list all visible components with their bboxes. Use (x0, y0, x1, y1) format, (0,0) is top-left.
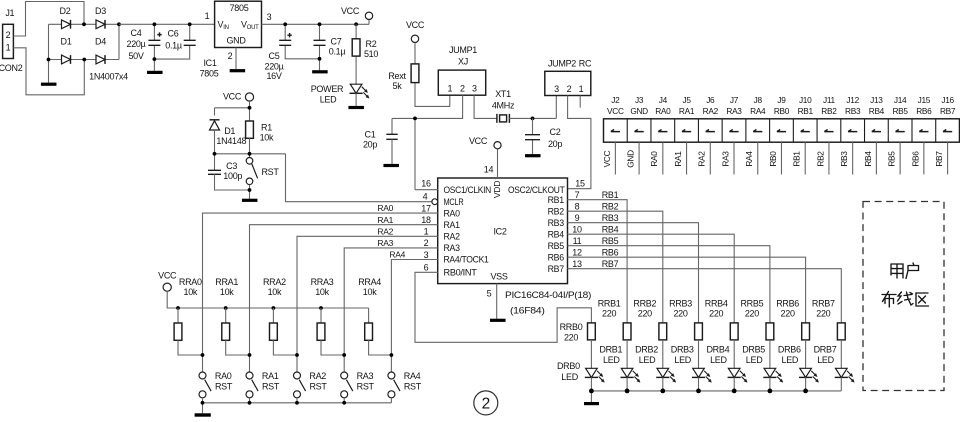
svg-text:J11: J11 (823, 95, 836, 105)
svg-text:RB4: RB4 (602, 224, 619, 234)
svg-text:RRB0: RRB0 (560, 322, 583, 332)
wire bridge top row (49, 23, 120, 25)
svg-text:15: 15 (575, 178, 585, 188)
svg-text:RB4: RB4 (548, 229, 565, 239)
wire J13 stub (875, 142, 877, 174)
svg-text:LED: LED (674, 355, 691, 365)
crystal XT1 4MHz (497, 114, 510, 123)
svg-text:0.1µ: 0.1µ (329, 47, 346, 57)
wire J8 stub (757, 142, 759, 174)
wire input rail (119, 23, 215, 25)
svg-text:220µ: 220µ (126, 39, 145, 49)
svg-text:RST: RST (404, 381, 422, 391)
svg-text:10k: 10k (363, 287, 377, 297)
svg-text:RRB4: RRB4 (705, 298, 728, 308)
svg-text:C3: C3 (226, 161, 237, 171)
wire J5 stub (686, 142, 688, 174)
svg-text:RST: RST (262, 381, 280, 391)
svg-text:10k: 10k (220, 287, 234, 297)
wire J7 stub (733, 142, 735, 174)
svg-text:RA4: RA4 (404, 371, 421, 381)
svg-text:12: 12 (572, 248, 582, 258)
svg-text:JUMP1: JUMP1 (449, 45, 477, 55)
svg-text:JUMP2: JUMP2 (548, 59, 576, 69)
svg-text:J8: J8 (754, 95, 763, 105)
svg-text:J14: J14 (894, 95, 907, 105)
svg-text:RA0: RA0 (655, 106, 671, 116)
wire reset node (215, 130, 286, 170)
wire RB3 staircase (568, 223, 699, 323)
svg-text:RB2: RB2 (602, 201, 619, 211)
wire J1 pin2 top loop (13, 2, 84, 37)
svg-text:VCC: VCC (341, 6, 360, 16)
connector JUMP2 RC (545, 71, 591, 95)
svg-text:J5: J5 (682, 95, 691, 105)
resistor RRB6 220 (802, 323, 810, 340)
svg-text:LED: LED (320, 95, 337, 105)
svg-text:VCC: VCC (223, 92, 242, 102)
svg-text:RST: RST (357, 381, 375, 391)
svg-text:1N4148: 1N4148 (216, 136, 246, 146)
wire VDD pin14 (497, 149, 499, 178)
wire J15 stub (923, 142, 925, 174)
svg-text:RA1: RA1 (679, 106, 695, 116)
svg-text:RST: RST (309, 381, 327, 391)
wire XT1 right (509, 96, 556, 119)
svg-text:2: 2 (482, 396, 490, 413)
wire bridge left vertical (48, 24, 50, 82)
resistor RRA3 10k (320, 308, 322, 323)
wire pullup VCC bus (167, 291, 368, 323)
user area dashed box (863, 202, 944, 391)
wire JUMP2 pin1 stub (579, 96, 581, 108)
svg-text:LED: LED (603, 355, 620, 365)
svg-text:510: 510 (364, 49, 378, 59)
svg-text:3: 3 (472, 84, 477, 94)
svg-text:LED: LED (639, 355, 656, 365)
wire RB5 staircase (568, 246, 770, 323)
svg-text:C5: C5 (269, 51, 280, 61)
svg-text:RA2: RA2 (377, 226, 393, 236)
svg-text:C6: C6 (168, 29, 179, 39)
wire J16 stub (947, 142, 949, 174)
svg-text:RRA2: RRA2 (263, 277, 286, 287)
svg-text:C2: C2 (550, 127, 561, 137)
connector J12 pin1 mark (848, 130, 857, 132)
svg-text:17: 17 (421, 203, 431, 213)
LED DRB2 (657, 368, 669, 377)
LED DRB7 (836, 368, 848, 377)
svg-text:XT1: XT1 (495, 89, 511, 99)
wire IC1 gnd pin2 (235, 48, 237, 70)
svg-text:PIC16C84-04I/P(18): PIC16C84-04I/P(18) (505, 290, 591, 300)
svg-text:C1: C1 (365, 130, 376, 140)
node pullup bus RRA0 (176, 306, 180, 310)
wire switch ground bus (203, 403, 392, 414)
connector J5 pin1 mark (682, 130, 691, 132)
svg-text:18: 18 (421, 215, 431, 225)
svg-text:RRA4: RRA4 (358, 277, 381, 287)
wire LED ground bus (591, 391, 841, 402)
svg-text:D3: D3 (95, 6, 106, 16)
resistor RRB2 220 (659, 323, 667, 340)
ground LED bus (584, 402, 599, 405)
wire RRB5 to LED (769, 340, 771, 368)
svg-text:2: 2 (228, 51, 233, 61)
node LED bus (660, 389, 665, 394)
svg-text:RB6: RB6 (548, 252, 565, 262)
resistor RRA0 10k (177, 308, 179, 323)
connector J6 pin1 mark (706, 130, 715, 132)
svg-text:RB7: RB7 (940, 106, 956, 116)
wire JUMP2 pin2 to OSC2 (568, 96, 591, 189)
diode D1 (62, 55, 71, 64)
svg-text:RA2: RA2 (703, 106, 719, 116)
svg-text:RB6: RB6 (910, 151, 920, 167)
svg-text:7: 7 (575, 190, 580, 200)
wire RB1 staircase (568, 200, 628, 323)
wire MCLR net (286, 154, 432, 202)
svg-text:VSS: VSS (490, 272, 507, 282)
svg-text:RA4/TOCK1: RA4/TOCK1 (444, 255, 489, 265)
connector J15 pin1 mark (919, 130, 928, 132)
capacitor C3 100p (208, 170, 221, 174)
LED DRB0 (586, 368, 598, 377)
svg-text:220: 220 (602, 309, 616, 319)
svg-text:7805: 7805 (200, 69, 219, 79)
svg-text:VCC: VCC (406, 20, 425, 30)
node output rail junctions (283, 22, 287, 26)
wire RRB1 to LED (626, 340, 628, 368)
wire J1 pin1 bottom loop (13, 48, 84, 95)
wire J14 stub (899, 142, 901, 174)
svg-text:RA3: RA3 (357, 371, 374, 381)
resistor R2 510 (355, 24, 357, 84)
svg-text:9: 9 (575, 213, 580, 223)
wire J12 stub (852, 142, 854, 174)
svg-text:VDD: VDD (492, 181, 502, 198)
ground IC1 (230, 69, 246, 72)
svg-text:RB3: RB3 (839, 151, 849, 167)
wire bridge right vertical (118, 24, 120, 59)
ground C1 (383, 164, 399, 167)
resistor RRA4 10k (365, 323, 373, 340)
diode D2 (62, 20, 71, 29)
svg-text:2: 2 (460, 84, 465, 94)
svg-text:Rext: Rext (388, 71, 406, 81)
node switch bus (248, 401, 252, 405)
svg-text:RB1: RB1 (798, 106, 814, 116)
connector J4 pin1 mark (658, 130, 667, 132)
svg-text:5k: 5k (393, 81, 403, 91)
svg-text:OSC2/CLKOUT: OSC2/CLKOUT (508, 185, 565, 195)
transistor MCLR bubble pin4 (432, 199, 438, 205)
svg-text:220: 220 (638, 309, 652, 319)
svg-text:CON2: CON2 (0, 63, 23, 73)
wire VSS pin5 (496, 284, 498, 319)
wire RRA3 bottom (321, 340, 344, 355)
connector J11 pin1 mark (824, 130, 833, 132)
connector J10 pin1 mark (801, 130, 810, 132)
node reset junctions (248, 106, 252, 110)
svg-text:RB2: RB2 (548, 206, 565, 216)
svg-text:RB0: RB0 (768, 151, 778, 167)
svg-text:1: 1 (447, 84, 452, 94)
switch RA3 RST (341, 372, 348, 379)
node switch bus (201, 401, 205, 405)
svg-text:1: 1 (6, 43, 11, 53)
wire RB6 staircase (568, 257, 806, 323)
svg-text:4MHz: 4MHz (492, 101, 515, 111)
node LED bus (803, 389, 808, 394)
svg-text:2: 2 (6, 30, 11, 40)
wire RA4 run (391, 260, 437, 373)
node switch bus (295, 401, 299, 405)
label figure number 2 (474, 391, 498, 415)
svg-text:6: 6 (424, 263, 429, 273)
svg-text:RB2: RB2 (821, 106, 837, 116)
svg-text:RB5: RB5 (602, 236, 619, 246)
ground POWER LED (348, 106, 364, 109)
svg-text:220: 220 (816, 309, 830, 319)
svg-text:16V: 16V (266, 71, 281, 81)
svg-text:RRB1: RRB1 (598, 298, 621, 308)
svg-text:RA3: RA3 (377, 238, 393, 248)
svg-text:RRA1: RRA1 (215, 277, 238, 287)
wire RRB7 to LED (840, 340, 842, 368)
resistor RRB3 220 (695, 323, 703, 340)
diode D4 (96, 55, 105, 64)
svg-text:1: 1 (424, 227, 429, 237)
svg-text:GND: GND (630, 106, 648, 116)
svg-text:11: 11 (573, 236, 582, 246)
svg-text:220: 220 (781, 309, 795, 319)
svg-text:J13: J13 (870, 95, 883, 105)
svg-text:D2: D2 (60, 6, 71, 16)
svg-text:10k: 10k (315, 287, 329, 297)
capacitor C1 20p (386, 134, 397, 139)
svg-text:RB6: RB6 (602, 247, 619, 257)
svg-text:RB3: RB3 (602, 213, 619, 223)
svg-text:3: 3 (267, 12, 272, 22)
svg-text:POWER: POWER (311, 84, 344, 94)
svg-text:RB5: RB5 (887, 151, 897, 167)
node pullup bus RRA3 (319, 306, 323, 310)
svg-text:RA4: RA4 (389, 250, 405, 260)
svg-text:LED: LED (781, 355, 798, 365)
svg-text:RB1: RB1 (602, 190, 619, 200)
svg-text:100p: 100p (223, 171, 242, 181)
wire RRA0 bottom (178, 340, 203, 355)
svg-text:13: 13 (572, 259, 582, 269)
svg-text:0.1µ: 0.1µ (165, 41, 182, 51)
svg-text:RB7: RB7 (548, 264, 565, 274)
resistor RRA2 10k (272, 308, 274, 323)
svg-text:(16F84): (16F84) (510, 306, 545, 316)
wire RA2 run (297, 236, 438, 372)
capacitor C2 20p (532, 118, 534, 154)
resistor RRA1 10k (225, 308, 227, 323)
svg-text:RA0: RA0 (377, 203, 393, 213)
svg-text:J9: J9 (777, 95, 786, 105)
svg-text:RA0: RA0 (444, 208, 461, 218)
svg-text:J1: J1 (5, 8, 14, 18)
wire RRB4 to LED (733, 340, 735, 368)
svg-text:RB0: RB0 (774, 106, 790, 116)
svg-text:XJ: XJ (458, 56, 468, 66)
resistor RRB1 220 (623, 323, 631, 340)
svg-text:J15: J15 (918, 95, 931, 105)
svg-text:LED: LED (746, 355, 763, 365)
svg-text:10k: 10k (183, 287, 197, 297)
svg-text:J12: J12 (846, 95, 859, 105)
svg-text:RB1: RB1 (548, 195, 565, 205)
svg-text:RRA3: RRA3 (311, 277, 334, 287)
capacitor C6 0.1u (154, 24, 189, 59)
svg-text:DRB2: DRB2 (635, 345, 658, 355)
wire OSC1 pin16 stub (415, 189, 438, 191)
svg-text:VCC: VCC (158, 271, 177, 281)
svg-text:RRA0: RRA0 (179, 277, 202, 287)
svg-text:RA1: RA1 (444, 220, 461, 230)
connector J3 pin1 mark (635, 130, 644, 132)
svg-text:RC: RC (579, 59, 592, 69)
svg-text:RRB5: RRB5 (740, 298, 763, 308)
node input rail junctions (153, 22, 157, 26)
svg-text:RA2: RA2 (697, 151, 707, 167)
wire J2 stub (614, 142, 616, 174)
svg-text:MCLR: MCLR (444, 197, 464, 207)
svg-text:IC1: IC1 (203, 58, 216, 68)
svg-text:DRB1: DRB1 (599, 345, 622, 355)
switch RA4 RST (388, 372, 395, 379)
svg-text:LED: LED (817, 355, 834, 365)
ground C2 (525, 154, 541, 157)
node pullup bus RRA1 (224, 306, 228, 310)
svg-text:D1: D1 (61, 37, 72, 47)
svg-text:RB4: RB4 (869, 106, 885, 116)
svg-text:RRB2: RRB2 (633, 298, 656, 308)
switch RST (246, 158, 253, 165)
wire RA0 run (203, 213, 438, 372)
capacitor C7 0.1u (319, 24, 321, 70)
wire J4 stub (662, 142, 664, 174)
svg-text:RA4: RA4 (744, 151, 754, 167)
ground switch bank (195, 413, 211, 416)
label yonghu (Chinese) (891, 264, 903, 278)
svg-text:J3: J3 (635, 95, 644, 105)
wire JUMP1 pin3 (474, 95, 497, 118)
svg-text:RRB6: RRB6 (776, 298, 799, 308)
wire J3 stub (638, 142, 640, 174)
svg-text:J6: J6 (706, 95, 715, 105)
wire OSC1 bus (392, 118, 415, 189)
svg-text:D4: D4 (95, 37, 106, 47)
switch RA2 RST (294, 372, 301, 379)
svg-text:R2: R2 (366, 39, 377, 49)
svg-text:RA2: RA2 (309, 371, 326, 381)
svg-text:220: 220 (745, 309, 759, 319)
wire J6 stub (709, 142, 711, 174)
svg-text:50V: 50V (128, 51, 143, 61)
svg-text:J10: J10 (799, 95, 812, 105)
ground C5 C7 (312, 70, 328, 73)
svg-text:20p: 20p (548, 139, 562, 149)
svg-text:1N4007x4: 1N4007x4 (89, 72, 128, 82)
svg-text:RB0/INT: RB0/INT (444, 268, 478, 278)
svg-text:7805: 7805 (230, 3, 249, 13)
terminal VCC main (365, 12, 372, 19)
svg-text:J16: J16 (941, 95, 954, 105)
ground bridge (41, 83, 57, 86)
svg-text:20p: 20p (363, 140, 377, 150)
svg-text:RB7: RB7 (934, 151, 944, 167)
capacitor C5 220u 16V (285, 24, 319, 59)
svg-text:RA3: RA3 (726, 106, 742, 116)
node LED bus (696, 389, 701, 394)
wire RB4 staircase (568, 234, 735, 323)
terminal VCC pin14 (494, 142, 501, 149)
wire RRB3 to LED (698, 340, 700, 368)
op IC2 PIC16C84 box (438, 178, 568, 284)
node switch bus (342, 401, 346, 405)
svg-text:DRB7: DRB7 (814, 345, 837, 355)
svg-text:RA1: RA1 (673, 151, 683, 167)
node LED bus (768, 389, 773, 394)
svg-text:1: 1 (205, 11, 210, 21)
svg-text:14: 14 (484, 165, 494, 175)
svg-text:RA3: RA3 (720, 151, 730, 167)
svg-text:10k: 10k (260, 132, 274, 142)
svg-text:220: 220 (564, 332, 578, 342)
svg-text:IC2: IC2 (493, 227, 506, 237)
terminal VCC pullups (163, 283, 171, 291)
resistor RRB7 220 (837, 323, 845, 340)
resistor RRB5 220 (766, 323, 774, 340)
svg-text:4: 4 (423, 192, 428, 202)
svg-text:3: 3 (554, 84, 559, 94)
svg-text:RB4: RB4 (863, 151, 873, 167)
wire RRA4 bottom (369, 340, 392, 355)
ground VSS (490, 319, 506, 322)
svg-text:RA1: RA1 (262, 371, 279, 381)
wire RB7 staircase (568, 269, 842, 323)
svg-text:RA2: RA2 (444, 232, 461, 242)
svg-text:RB6: RB6 (916, 106, 932, 116)
wire J11 stub (828, 142, 830, 174)
svg-text:DRB3: DRB3 (671, 345, 694, 355)
connector J14 pin1 mark (896, 130, 905, 132)
node pullup bus RRA2 (272, 306, 276, 310)
wire JUMP1 pin2 (415, 95, 463, 118)
connector J7 pin1 mark (729, 130, 738, 132)
switch RA1 RST (246, 372, 253, 379)
svg-text:2: 2 (567, 84, 572, 94)
wire RRB0 to LED (590, 340, 592, 368)
resistor Rext 5k (415, 43, 450, 107)
wire VCC node to branches (215, 101, 250, 121)
LED DRB4 (728, 368, 740, 377)
connector J9 pin1 mark (777, 130, 786, 132)
svg-text:LED: LED (561, 372, 578, 382)
svg-text:5: 5 (487, 289, 492, 299)
svg-text:2: 2 (424, 238, 429, 248)
svg-text:RA0: RA0 (215, 371, 232, 381)
LED DRB1 (621, 368, 633, 377)
svg-text:GND: GND (226, 36, 246, 46)
LED DRB6 (800, 368, 812, 377)
svg-text:RB2: RB2 (815, 151, 825, 167)
